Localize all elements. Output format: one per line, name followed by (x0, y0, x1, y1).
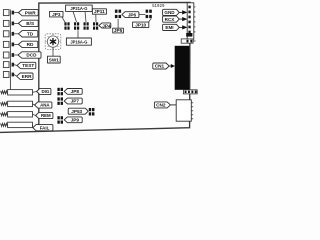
svg-text:PWR: PWR (25, 10, 37, 15)
svg-text:DIG: DIG (41, 89, 49, 94)
svg-text:SW1: SW1 (49, 57, 60, 62)
svg-text:RCX: RCX (165, 17, 176, 22)
svg-text:JP3: JP3 (52, 12, 61, 17)
svg-text:TD: TD (27, 31, 34, 36)
svg-text:JP53: JP53 (71, 109, 82, 114)
svg-text:CN1: CN1 (155, 64, 165, 69)
svg-text:CN2: CN2 (156, 103, 166, 108)
svg-text:GND: GND (164, 10, 175, 15)
svg-text:RD: RD (27, 42, 34, 47)
svg-text:ERR: ERR (22, 74, 33, 79)
svg-text:ANA: ANA (40, 103, 50, 108)
svg-text:DCD: DCD (26, 53, 37, 58)
svg-text:51929: 51929 (152, 3, 165, 8)
svg-text:JP5: JP5 (114, 28, 123, 33)
svg-text:JP11: JP11 (94, 9, 105, 14)
svg-text:JP21A-G: JP21A-G (70, 6, 87, 11)
svg-text:REM: REM (41, 113, 51, 118)
svg-text:JP9: JP9 (71, 117, 80, 122)
svg-text:JP7: JP7 (71, 99, 80, 104)
svg-text:JP16A-G: JP16A-G (70, 39, 87, 44)
svg-text:JP6: JP6 (128, 12, 137, 17)
svg-text:TEST: TEST (22, 63, 34, 68)
svg-text:B/S: B/S (26, 21, 34, 26)
svg-text:FAIL: FAIL (40, 125, 50, 130)
svg-text:JP8: JP8 (71, 89, 80, 94)
svg-text:JP4: JP4 (102, 23, 111, 28)
svg-text:EMI: EMI (165, 25, 173, 30)
svg-text:JP10: JP10 (135, 22, 146, 27)
